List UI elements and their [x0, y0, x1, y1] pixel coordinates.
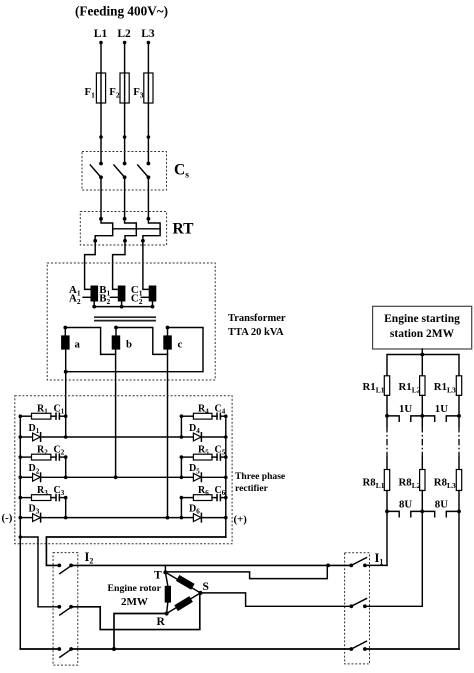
svg-text:RT: RT: [173, 221, 195, 238]
svg-text:Three phase: Three phase: [235, 471, 286, 482]
capacitor C4: [212, 415, 217, 417]
contact I2-3: [57, 647, 61, 651]
snubber link 6: [180, 498, 182, 518]
resistor R1L3: [456, 376, 461, 396]
wire I1-1 to column L1: [365, 564, 387, 566]
capacitor C5: [212, 456, 217, 458]
snubber link 5: [180, 457, 182, 477]
wire R8L1 to 8U: [386, 491, 388, 512]
snubber link 4: [180, 416, 182, 437]
wire row 3: [41, 517, 182, 519]
node 1U column 459: [457, 414, 461, 418]
wire T tap: [164, 565, 166, 572]
contact 8U b: [422, 511, 459, 516]
wire R drop: [114, 614, 167, 650]
wire I1-2 to column L2: [365, 605, 422, 607]
terminal stub C2: [141, 296, 148, 298]
wire phase a column: [65, 350, 67, 437]
delta jumper b-c: [116, 328, 168, 355]
svg-text:station 2MW: station 2MW: [390, 328, 455, 340]
diode D1: [20, 436, 32, 438]
resistor R4: [181, 415, 193, 417]
svg-text:1U: 1U: [435, 403, 448, 415]
svg-text:R: R: [157, 616, 166, 628]
node 1U column 422.3: [420, 414, 424, 418]
contact I1-3: [349, 647, 353, 651]
wire L1 top: [100, 43, 102, 164]
contactor Cs pole 3: [147, 162, 151, 166]
node phase b on row 2: [114, 475, 118, 479]
wire L3 top: [147, 43, 149, 164]
resistor R8L1: [384, 470, 389, 491]
contactor Cs pole 2: [123, 162, 127, 166]
node 8U column 422.3: [420, 510, 424, 514]
wire stage column: [386, 416, 388, 426]
resistor R8L3: [456, 470, 461, 491]
fuse F3: [144, 73, 153, 103]
svg-text:(Feeding 400V~): (Feeding 400V~): [75, 4, 168, 19]
wire RT to C1: [143, 245, 149, 289]
snubber link 2: [65, 457, 67, 477]
wire phase c column: [167, 350, 169, 518]
svg-text:8U: 8U: [399, 499, 412, 511]
wire row 2: [41, 476, 182, 478]
delta jumper c-a: [66, 328, 203, 372]
positive bus: [225, 416, 227, 537]
resistor R5: [181, 456, 193, 458]
wire R1L2 to 1U: [421, 395, 423, 416]
wire L2 column down: [421, 511, 423, 606]
node 8U column 387: [385, 510, 389, 514]
resistor R2: [20, 456, 31, 458]
svg-text:a: a: [75, 339, 81, 351]
wire stage column: [458, 416, 460, 426]
wire R8L3 to 8U: [458, 491, 460, 512]
svg-text:2MW: 2MW: [121, 596, 148, 608]
contact 1U a: [387, 416, 422, 421]
resistor R8L2: [420, 470, 425, 491]
resistor R1: [20, 415, 31, 417]
wire bottom bus to I2-3: [20, 648, 59, 650]
wire L3 column down: [458, 511, 460, 649]
wire L2 top: [124, 43, 126, 164]
transformer primary winding C: [149, 286, 157, 302]
three phase rectifier box: [15, 396, 232, 544]
engine starting station box: [373, 306, 472, 349]
diode D3: [20, 517, 32, 519]
thermal relay RT element phase 2: [125, 177, 137, 245]
contact I1-1: [349, 564, 353, 568]
contact I1-2: [349, 604, 353, 608]
terminal stub A2: [83, 296, 90, 298]
transformer secondary winding a: [61, 335, 70, 349]
wire positive return: [46, 537, 225, 565]
node T: [163, 570, 167, 574]
wire station feed bus: [387, 349, 459, 376]
svg-text:T: T: [154, 570, 162, 582]
transformer primary winding B: [118, 286, 126, 302]
wire I2-1 to I1-1: [71, 564, 351, 566]
rotor winding R-S: [167, 593, 201, 614]
wire I2-3 to I1-3: [71, 648, 351, 650]
fuse F1: [96, 73, 105, 103]
diode D5: [181, 476, 193, 478]
node phase c on row 3: [166, 516, 170, 520]
wire stage column: [421, 416, 423, 426]
thermal relay RT element phase 1: [95, 177, 113, 245]
wire R1L1 to 1U: [386, 395, 388, 416]
resistor R3: [20, 497, 31, 499]
svg-text:TTA 20 kVA: TTA 20 kVA: [228, 327, 284, 338]
wire negative to I2-2: [20, 537, 59, 607]
svg-text:L1: L1: [94, 28, 108, 40]
contact I2-2: [57, 605, 61, 609]
delta jumper a-b: [65, 328, 115, 355]
wire S to I1-2: [201, 593, 352, 606]
wire row 1: [41, 436, 182, 438]
snubber link 3: [65, 498, 67, 518]
resistor R1L1: [384, 376, 389, 396]
transformer primary winding A: [91, 286, 99, 302]
svg-text:(+): (+): [234, 514, 248, 526]
svg-text:L3: L3: [141, 28, 155, 40]
transformer secondary winding b: [112, 335, 121, 349]
wire RT to B1: [113, 245, 125, 289]
svg-text:1U: 1U: [399, 403, 412, 415]
svg-text:b: b: [126, 339, 132, 351]
contact 1U b: [422, 416, 459, 421]
node 8U column 459: [457, 510, 461, 514]
contact 8U a: [387, 511, 422, 516]
svg-text:Engine starting: Engine starting: [384, 313, 460, 325]
isolator I2 box: [53, 553, 78, 666]
capacitor C2: [51, 456, 56, 458]
transformer secondary winding c: [163, 335, 172, 349]
node R: [165, 611, 169, 615]
wire R1L3 to 1U: [458, 395, 460, 416]
rotor winding T-S: [165, 572, 200, 593]
svg-text:c: c: [178, 339, 183, 351]
svg-text:S: S: [203, 581, 209, 593]
node 1U column 387: [385, 414, 389, 418]
capacitor C6: [212, 497, 217, 499]
resistor R1L2: [420, 376, 425, 396]
svg-text:L2: L2: [117, 28, 131, 40]
contactor Cs pole 1: [99, 162, 103, 166]
wire RT to A1: [85, 245, 96, 289]
fuse F2: [120, 73, 129, 103]
wire R8L2 to 8U: [421, 491, 423, 512]
diode D2: [20, 476, 32, 478]
negative bus: [19, 416, 21, 649]
svg-text:(-): (-): [2, 512, 13, 524]
svg-text:rectifier: rectifier: [235, 483, 269, 494]
thermal relay RT element phase 3: [143, 177, 160, 245]
wire L1 column down: [386, 511, 388, 565]
svg-text:Transformer: Transformer: [228, 313, 286, 324]
capacitor C1: [51, 415, 56, 417]
svg-text:Engine rotor: Engine rotor: [108, 583, 162, 594]
wire I1-3 to column L3: [365, 648, 459, 650]
RT linkage bar: [113, 228, 160, 230]
resistor R6: [181, 497, 193, 499]
transformer core: [94, 316, 156, 318]
wire phase b column: [115, 350, 117, 478]
contactor Cs box: [82, 152, 167, 191]
wire I2-2 to S: [71, 593, 200, 630]
rotor winding T-R: [165, 572, 167, 613]
capacitor C3: [51, 497, 56, 499]
contact I2-1: [57, 564, 61, 568]
primary common bus: [94, 302, 152, 307]
svg-text:8U: 8U: [435, 499, 448, 511]
thermal relay RT box: [80, 212, 166, 246]
node S: [198, 591, 202, 595]
wire T loop: [166, 565, 327, 578]
transformer box: [47, 263, 215, 380]
isolator I1 box: [345, 553, 370, 664]
diode D6: [181, 517, 193, 519]
terminal stub B2: [110, 296, 117, 298]
diode D4: [181, 436, 193, 438]
